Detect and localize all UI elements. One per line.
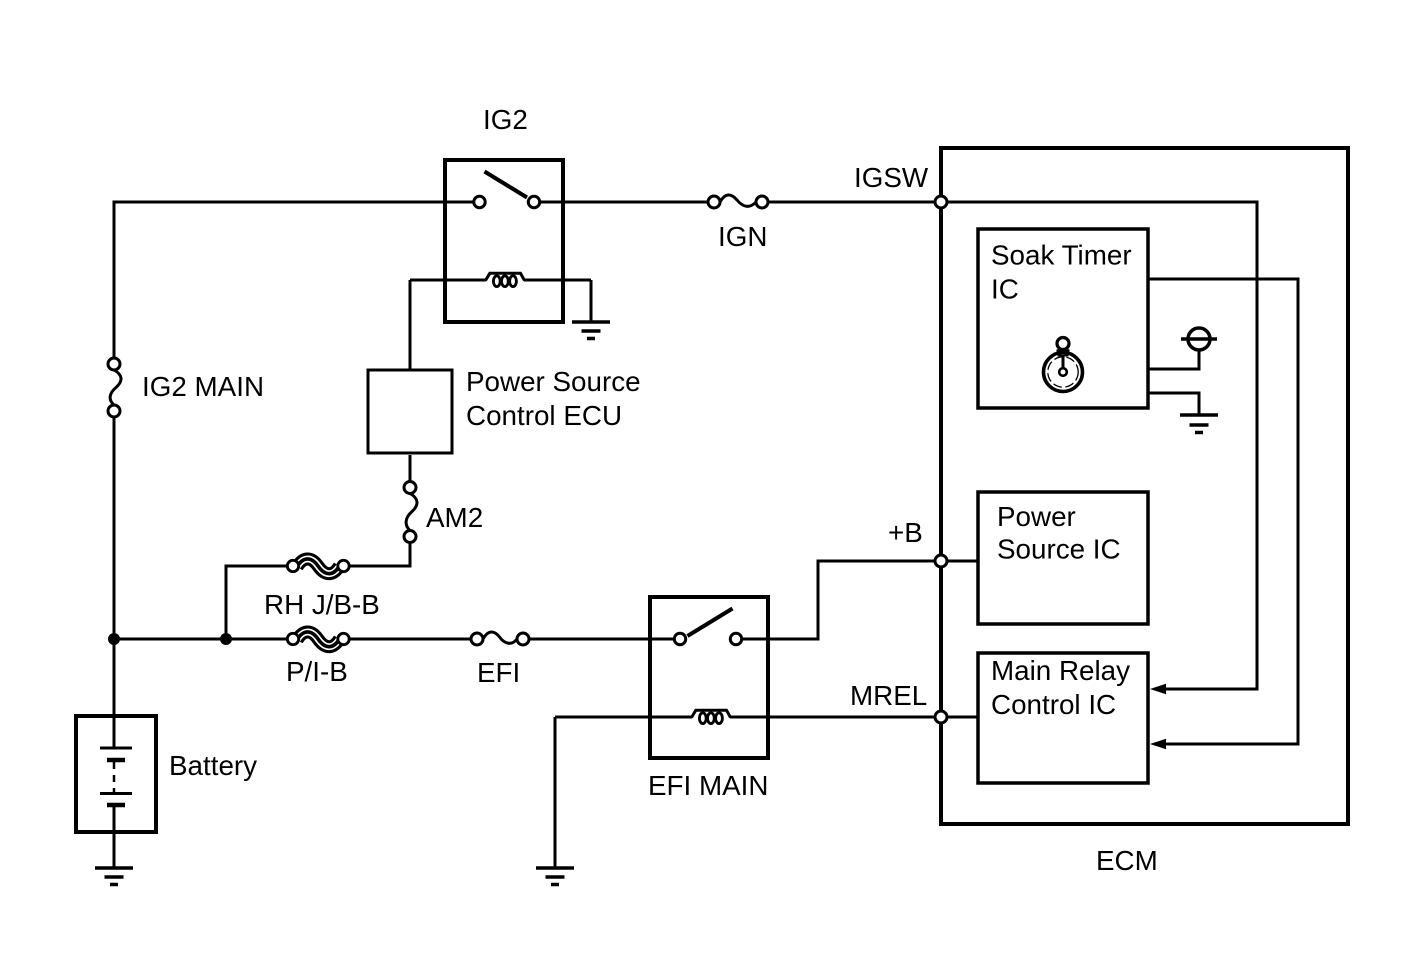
fuse AM2 xyxy=(404,482,417,543)
svg-text:IGN: IGN xyxy=(718,221,767,252)
wire to +B node xyxy=(817,560,937,563)
svg-text:Main Relay: Main Relay xyxy=(991,655,1130,686)
wire main horizontal battery to P/I-B xyxy=(114,638,288,641)
IG2 switch left contact xyxy=(474,196,485,207)
wire +B node to Power Source IC xyxy=(946,560,978,563)
svg-text:P/I-B: P/I-B xyxy=(286,656,348,687)
wire corner up to AM2 fuse xyxy=(409,542,412,568)
ECM box xyxy=(941,148,1348,824)
node +B xyxy=(935,555,947,567)
wire Power Source Control ECU up xyxy=(409,280,412,370)
wire from IG2 switch to IGN fuse xyxy=(540,201,709,204)
wire IGSW to Main Relay Control IC xyxy=(947,202,1257,689)
fuse EFI xyxy=(471,632,529,645)
svg-text:Battery: Battery xyxy=(169,750,257,781)
svg-text:IGSW: IGSW xyxy=(854,162,929,193)
svg-text:Source IC: Source IC xyxy=(997,534,1121,565)
wire from IGN fuse to IGSW node xyxy=(768,201,936,204)
battery internal top lead xyxy=(113,716,116,748)
ground for battery xyxy=(95,868,133,885)
connector P/I-B xyxy=(287,632,349,647)
ground for EFI MAIN coil xyxy=(536,868,574,885)
battery internal bottom lead xyxy=(113,805,116,832)
EFI MAIN switch right contact xyxy=(730,633,741,644)
junction dot left xyxy=(108,633,120,645)
wire branch up from junction xyxy=(225,566,228,639)
Soak Timer IC box xyxy=(978,229,1148,408)
svg-text:IG2: IG2 xyxy=(483,104,528,135)
wire EFI MAIN coil left lead out xyxy=(555,716,692,719)
svg-text:Power: Power xyxy=(997,501,1076,532)
arrow into Main Relay Control IC upper xyxy=(1150,684,1166,694)
node IGSW xyxy=(935,196,947,208)
IG2 relay box xyxy=(445,160,563,322)
wire AM2 fuse to Power Source Control ECU xyxy=(409,455,412,482)
terminal symbol xyxy=(1188,328,1210,350)
fuse IGN xyxy=(708,195,768,208)
svg-text:Control ECU: Control ECU xyxy=(466,400,622,431)
svg-text:RH J/B-B: RH J/B-B xyxy=(264,589,380,620)
wire MREL node to Main Relay Control IC xyxy=(946,716,978,719)
wire Soak Timer to Main Relay Control IC xyxy=(1148,279,1298,744)
wire battery bottom to ground xyxy=(113,832,116,867)
wire RH J/B-B to AM2 corner xyxy=(349,565,410,568)
EFI MAIN relay box xyxy=(650,597,768,758)
ground internal ECM xyxy=(1180,415,1218,433)
wire to IG2 coil left lead xyxy=(410,279,486,282)
wire top horizontal left segment xyxy=(114,201,474,204)
Power Source Control ECU box xyxy=(368,370,452,453)
IG2 switch right contact xyxy=(528,196,539,207)
wire left vertical lower xyxy=(113,417,116,717)
terminal crossbar xyxy=(1181,337,1217,341)
wire branch to RH J/B-B xyxy=(225,565,289,568)
wire EFI MAIN switch to corner xyxy=(741,638,818,641)
svg-text:IC: IC xyxy=(991,274,1019,305)
battery box xyxy=(76,716,156,832)
svg-text:Soak Timer: Soak Timer xyxy=(991,240,1132,271)
wire Soak Timer to internal ground xyxy=(1148,393,1199,415)
svg-text:ECM: ECM xyxy=(1096,845,1158,876)
svg-text:Power Source: Power Source xyxy=(466,366,641,397)
stopwatch icon xyxy=(1044,338,1083,392)
svg-text:+B: +B xyxy=(888,517,923,548)
wire corner up to +B level xyxy=(817,561,820,641)
IG2 switch blade xyxy=(485,172,528,198)
connector RH J/B-B xyxy=(287,559,349,574)
battery plate long top xyxy=(100,747,132,750)
svg-text:AM2: AM2 xyxy=(426,502,483,533)
svg-text:MREL: MREL xyxy=(850,680,927,711)
EFI MAIN switch blade xyxy=(688,609,733,637)
battery plate short bottom xyxy=(107,803,125,808)
wire IG2 coil down to ground xyxy=(590,280,593,321)
arrow into Main Relay Control IC lower xyxy=(1150,739,1166,749)
Main Relay Control IC box xyxy=(978,653,1148,783)
battery dashed middle xyxy=(113,762,116,792)
Power Source IC box xyxy=(978,492,1148,624)
junction dot branch xyxy=(220,633,232,645)
wire IG2 coil right lead xyxy=(524,279,591,282)
svg-text:EFI MAIN: EFI MAIN xyxy=(648,770,768,801)
wire Soak Timer to terminal xyxy=(1148,351,1199,369)
ground for IG2 coil xyxy=(572,322,610,339)
IG2 coil xyxy=(486,273,525,286)
svg-text:EFI: EFI xyxy=(477,657,520,688)
wire left vertical upper xyxy=(113,201,116,359)
battery plate short top xyxy=(107,758,125,763)
EFI MAIN switch left contact xyxy=(674,633,685,644)
EFI MAIN coil xyxy=(692,710,731,723)
svg-text:IG2 MAIN: IG2 MAIN xyxy=(142,371,264,402)
battery plate long bottom xyxy=(100,792,132,795)
wire P/I-B to EFI fuse xyxy=(349,638,472,641)
node MREL xyxy=(935,711,947,723)
wire EFI fuse to EFI MAIN relay xyxy=(528,638,675,641)
fuse IG2 MAIN xyxy=(108,358,121,417)
svg-text:Control IC: Control IC xyxy=(991,689,1116,720)
wire EFI MAIN coil lead down to ground xyxy=(554,717,557,867)
wire EFI MAIN coil right lead to MREL node xyxy=(730,716,936,719)
